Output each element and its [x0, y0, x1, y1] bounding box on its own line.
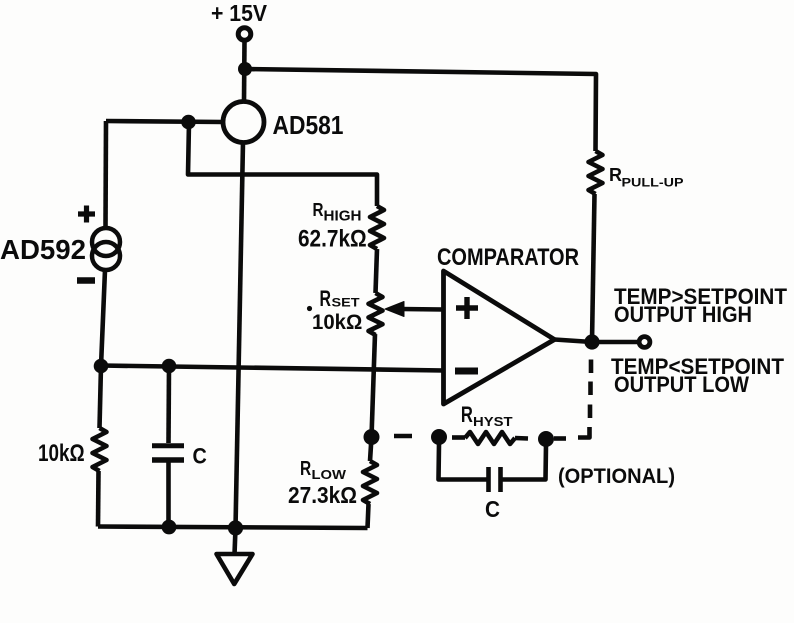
svg-text:R: R [320, 286, 332, 311]
svg-text:R: R [461, 402, 473, 427]
svg-text:AD581: AD581 [273, 110, 344, 140]
svg-text:10kΩ: 10kΩ [38, 440, 85, 467]
svg-text:10kΩ: 10kΩ [312, 311, 362, 334]
svg-text:62.7kΩ: 62.7kΩ [298, 226, 367, 252]
svg-text:HIGH: HIGH [324, 208, 362, 225]
svg-text:OUTPUT HIGH: OUTPUT HIGH [614, 302, 752, 327]
svg-text:LOW: LOW [312, 467, 347, 482]
svg-text:OUTPUT LOW: OUTPUT LOW [614, 372, 749, 397]
svg-text:C: C [193, 444, 207, 469]
svg-text:COMPARATOR: COMPARATOR [437, 244, 579, 271]
svg-text:R: R [609, 165, 622, 185]
svg-text:(OPTIONAL): (OPTIONAL) [558, 464, 675, 488]
svg-text:27.3kΩ: 27.3kΩ [288, 482, 357, 508]
svg-text:C: C [485, 496, 500, 522]
svg-text:R: R [300, 457, 311, 480]
svg-text:R: R [313, 200, 324, 220]
svg-text:HYST: HYST [473, 414, 513, 429]
svg-text:SET: SET [332, 296, 361, 310]
svg-text:+ 15V: + 15V [211, 0, 267, 26]
svg-text:PULL-UP: PULL-UP [622, 176, 684, 190]
svg-text:AD592: AD592 [0, 234, 86, 265]
